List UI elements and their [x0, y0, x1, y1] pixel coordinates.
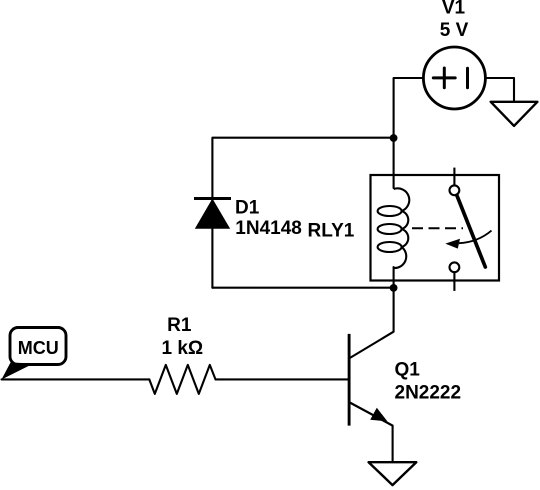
svg-text:RLY1: RLY1 [308, 220, 355, 241]
svg-text:D1: D1 [235, 197, 260, 218]
svg-text:MCU: MCU [18, 338, 59, 358]
svg-text:5 V: 5 V [440, 20, 469, 41]
svg-text:1 kΩ: 1 kΩ [161, 338, 203, 359]
svg-text:R1: R1 [167, 315, 192, 336]
svg-text:2N2222: 2N2222 [395, 383, 462, 404]
svg-text:V1: V1 [442, 0, 466, 19]
svg-text:1N4148: 1N4148 [235, 218, 302, 239]
svg-text:Q1: Q1 [395, 360, 421, 381]
